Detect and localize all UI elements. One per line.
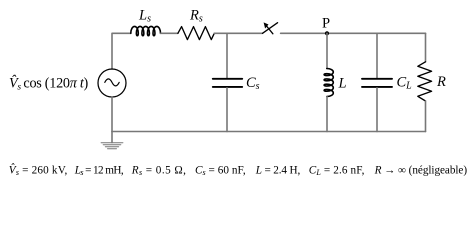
svg-text:CL = 2.6 nF,: CL = 2.6 nF, <box>309 164 365 177</box>
voltage source Vs circle <box>98 69 126 97</box>
svg-text:R: R <box>436 74 446 90</box>
svg-text:L: L <box>338 76 347 92</box>
wire: CL branch top <box>376 33 378 78</box>
wire: L branch bottom <box>326 97 328 132</box>
wire: between Ls and Rs <box>161 32 178 34</box>
wire: source bottom to rail <box>111 97 113 132</box>
svg-text:Ls = 12 mH,: Ls = 12 mH, <box>74 164 124 177</box>
caption values <box>9 164 468 177</box>
resistor R <box>418 62 432 101</box>
switch arrow line <box>266 25 273 34</box>
wire: Cs branch bottom <box>226 88 228 132</box>
node P dot <box>325 31 329 35</box>
voltage source sine <box>105 79 119 86</box>
wire: L branch top <box>326 33 328 68</box>
svg-text:P: P <box>322 15 330 31</box>
svg-text:Cs: Cs <box>246 75 260 92</box>
svg-text:Rs: Rs <box>189 7 203 24</box>
wire: CL branch bottom <box>376 88 378 132</box>
svg-text:L = 2.4 H,: L = 2.4 H, <box>255 164 301 176</box>
svg-text:Ls: Ls <box>138 7 151 24</box>
wire: Rs to switch <box>214 32 262 34</box>
ground stub wire <box>111 132 113 143</box>
bottom rail wire <box>112 131 426 133</box>
switch (opening breaker) blade <box>263 23 278 34</box>
wire: R branch top <box>425 33 427 62</box>
svg-text:V̂s cos (120π t): V̂s cos (120π t) <box>9 75 89 92</box>
svg-text:R → ∞ (négligeable): R → ∞ (négligeable) <box>374 164 468 176</box>
resistor Rs <box>178 27 214 40</box>
wire: switch to right corner <box>281 32 426 34</box>
wire: Cs branch top <box>226 33 228 78</box>
inductor L <box>324 69 333 97</box>
svg-text:CL: CL <box>397 75 413 92</box>
ground symbol <box>101 143 123 149</box>
wire: top-left from corner to Ls <box>112 33 131 69</box>
switch arrowhead <box>264 22 269 28</box>
svg-text:Cs = 60 nF,: Cs = 60 nF, <box>195 164 246 177</box>
svg-text:V̂s = 260 kV,: V̂s = 260 kV, <box>9 164 68 177</box>
capacitor CL <box>362 79 392 87</box>
capacitor Cs <box>213 79 242 87</box>
wire: R branch bottom <box>425 101 427 132</box>
svg-text:Rs = 0.5 Ω,: Rs = 0.5 Ω, <box>131 164 187 177</box>
inductor Ls <box>131 26 161 35</box>
